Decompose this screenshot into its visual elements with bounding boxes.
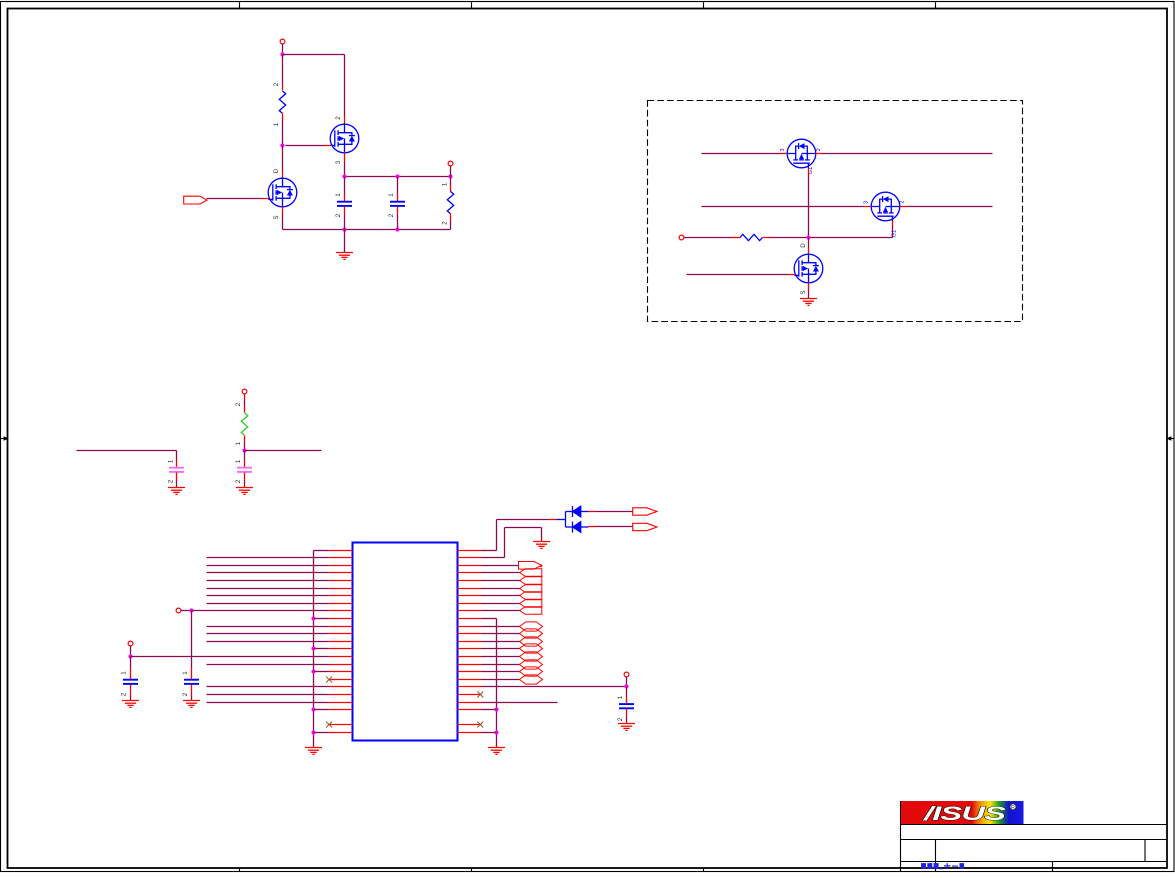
svg-text:1: 1: [182, 671, 189, 675]
ground M3: [800, 299, 817, 306]
ground below rail: [344, 230, 346, 253]
svg-text:2: 2: [182, 692, 189, 696]
svg-text:2: 2: [388, 213, 395, 217]
svg-text:2: 2: [168, 479, 175, 483]
wire Q1 source to bottom rail: [282, 215, 284, 230]
svg-text:1: 1: [388, 193, 395, 197]
resistor R2: [450, 177, 452, 186]
connector arrow out1: [633, 508, 657, 515]
svg-text:1: 1: [168, 459, 175, 463]
svg-text:3: 3: [780, 149, 786, 152]
pin 2 lead Q2 drain: [344, 117, 346, 125]
right bus junction dots: [494, 707, 498, 711]
wire junction to M3 drain: [808, 238, 810, 248]
resistor R1: [282, 55, 284, 86]
wire M2 drain left: [702, 206, 865, 208]
wire input to Q1 gate: [207, 198, 263, 200]
left bus junction dots: [311, 616, 315, 620]
ground C6: [183, 701, 200, 708]
diode D1: [573, 506, 589, 517]
wire D1 to arrow: [589, 511, 596, 513]
ground left bus: [305, 748, 322, 755]
svg-text:1: 1: [273, 122, 280, 126]
transistor Q1: [268, 178, 297, 207]
wire M2 gate down: [892, 221, 894, 227]
wire P5 branch down to capacitor C6: [191, 611, 193, 662]
svg-text:/ISUS: /ISUS: [923, 803, 1006, 824]
left wires rows 19-21: [207, 686, 329, 688]
left wires rows 2-8: [207, 557, 329, 559]
svg-text:D: D: [273, 168, 280, 173]
wire row19 to terminal P7: [482, 686, 627, 688]
svg-text:2: 2: [335, 116, 342, 120]
wire right branch down to Q2 drain: [344, 55, 346, 117]
connector arrow input: [184, 196, 207, 204]
transistor M2: [871, 192, 900, 221]
ground C4: [236, 488, 253, 495]
pin D lead Q1: [282, 170, 284, 178]
terminal P7: [624, 672, 629, 677]
transistor M3: [794, 254, 823, 283]
left wires rows 11-13: [207, 626, 329, 628]
coil arrow row3: [482, 565, 519, 567]
diode D2: [573, 522, 589, 533]
ground C7: [618, 724, 635, 731]
terminal P5 row9: [176, 608, 181, 613]
wire corner down to capacitor C3: [176, 451, 178, 461]
date text blue: [921, 863, 964, 869]
wire Q2 source to rail: [344, 162, 346, 177]
wire junction to Q2 gate: [286, 145, 325, 147]
capacitor C1: [344, 177, 346, 194]
top rail wire: [345, 176, 451, 178]
svg-text:1: 1: [335, 193, 342, 197]
wire D2 to arrow: [589, 526, 596, 528]
svg-text:1: 1: [442, 182, 449, 186]
right edge mid arrow: [1166, 436, 1174, 440]
ground row2: [533, 542, 550, 549]
bottom edge zone ticks: [240, 868, 936, 872]
IC U1 body: [353, 543, 458, 741]
wire M1 drain left: [702, 153, 781, 155]
svg-text:1: 1: [235, 459, 242, 463]
terminal P3 box: [679, 235, 684, 240]
svg-text:1: 1: [235, 441, 242, 445]
right pin stubs U1: [458, 551, 482, 733]
svg-text:2: 2: [335, 213, 342, 217]
terminal P4 green resistor: [242, 389, 247, 394]
svg-text:1: 1: [121, 671, 128, 675]
capacitor C7: [626, 687, 628, 697]
wire M3 gate left: [687, 274, 789, 276]
left pin stubs U1: [329, 551, 353, 733]
wire P1 to junction: [282, 44, 284, 55]
bottom rail wire: [345, 229, 451, 231]
no-connect X row18 left: [326, 677, 332, 683]
wire stub row21: [482, 702, 558, 704]
coil eyes rows 11-18: [482, 626, 520, 628]
ground C3: [168, 488, 185, 495]
svg-text:1: 1: [617, 695, 624, 699]
coil arrows rows 4-9 shared edge: [482, 572, 520, 574]
resistor R3: [740, 234, 762, 240]
wire row2 to ground: [482, 557, 505, 559]
ASUS logo text: [923, 803, 1006, 824]
svg-text:S: S: [273, 215, 280, 219]
dashed enclosure box: [648, 101, 1023, 322]
wire row10 corner to right bus: [482, 618, 497, 620]
svg-text:3: 3: [864, 201, 870, 204]
terminal P2 right: [448, 161, 453, 166]
top edge zone ticks: [240, 2, 936, 9]
ground C5: [122, 701, 139, 708]
svg-text:2: 2: [273, 82, 280, 86]
node junction gate: [280, 143, 284, 147]
svg-text:2: 2: [235, 402, 242, 406]
capacitor C2: [397, 177, 399, 194]
node junction top: [280, 52, 284, 56]
svg-text:2: 2: [816, 148, 822, 151]
svg-text:R: R: [1011, 805, 1015, 811]
pin 3 lead Q2 source: [344, 153, 346, 162]
terminal P1 top: [280, 39, 285, 44]
wire row1 to diodes: [482, 550, 497, 552]
no-connect X row24 left: [326, 722, 332, 728]
wire P3 to resistor R3: [684, 237, 733, 239]
svg-text:D: D: [800, 243, 807, 248]
wire M1 source right: [816, 153, 823, 155]
transistor M1: [787, 139, 816, 168]
node gate junction: [806, 235, 810, 239]
title block lines: [901, 825, 1168, 872]
pin S lead Q1: [282, 207, 284, 215]
capacitor C3 pink: [176, 461, 178, 469]
no-connect X row24 right: [477, 722, 483, 728]
capacitor C5: [130, 657, 132, 668]
node rail dots top: [342, 174, 346, 178]
wire row16: [207, 664, 329, 666]
svg-text:3: 3: [335, 160, 342, 164]
pin S lead M3: [808, 283, 810, 291]
capacitor C6: [191, 662, 193, 668]
diode pair bracket: [557, 512, 573, 528]
left bus vertical: [313, 551, 315, 748]
no-connect X row20 right: [477, 692, 483, 698]
wire right from junction: [245, 450, 322, 452]
wire M2 source right: [900, 206, 907, 208]
node junction P7: [624, 684, 628, 688]
title block left edge: [900, 801, 902, 872]
left edge mid arrow: [1, 436, 9, 440]
wire top horizontal: [283, 54, 345, 56]
svg-text:S: S: [800, 290, 807, 294]
terminal P6 row15: [128, 641, 133, 646]
svg-text:2: 2: [121, 692, 128, 696]
wire M3 source to ground: [808, 291, 810, 299]
node rail dots bottom: [342, 227, 346, 231]
capacitor C4 pink: [244, 451, 246, 461]
wire M1 gate down: [808, 168, 810, 175]
svg-text:2: 2: [235, 479, 242, 483]
transistor Q2: [330, 124, 359, 153]
connector arrow out2: [633, 523, 657, 530]
wire row15 from P6: [131, 656, 329, 658]
svg-text:2: 2: [900, 201, 906, 204]
wire stub left: [77, 450, 177, 452]
resistor R4 green: [244, 394, 246, 400]
svg-text:2: 2: [442, 221, 449, 225]
wire Q1 drain from junction: [282, 146, 284, 170]
left bus top corner to pin1: [314, 550, 329, 552]
node junction green: [242, 448, 246, 452]
ground right bus: [488, 748, 505, 755]
svg-text:2: 2: [617, 717, 624, 721]
